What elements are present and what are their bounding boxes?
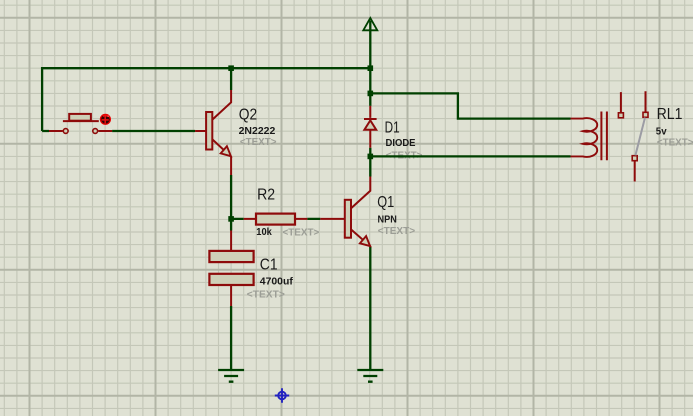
- svg-text:<TEXT>: <TEXT>: [240, 136, 277, 148]
- svg-text:DIODE: DIODE: [386, 137, 416, 149]
- svg-text:10k: 10k: [256, 226, 272, 238]
- svg-text:RL1: RL1: [657, 106, 683, 123]
- svg-text:<TEXT>: <TEXT>: [657, 137, 693, 149]
- svg-text:NPN: NPN: [378, 213, 397, 225]
- svg-text:<TEXT>: <TEXT>: [283, 226, 320, 238]
- svg-text:<TEXT>: <TEXT>: [247, 289, 285, 301]
- svg-text:D1: D1: [385, 120, 400, 137]
- svg-text:Q2: Q2: [239, 107, 257, 124]
- svg-text:Q1: Q1: [377, 194, 394, 211]
- svg-text:R2: R2: [257, 187, 275, 204]
- svg-text:<TEXT>: <TEXT>: [378, 225, 416, 237]
- svg-text:C1: C1: [260, 257, 278, 274]
- svg-text:4700uf: 4700uf: [260, 275, 293, 287]
